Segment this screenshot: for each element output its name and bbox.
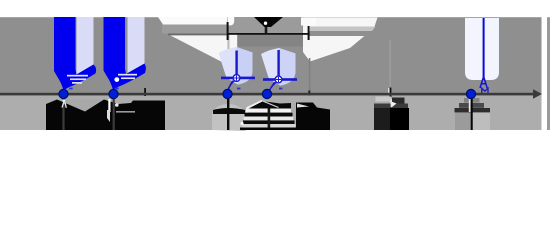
left sail right edge: [227, 35, 229, 63]
black marker trapezoid: [254, 17, 283, 27]
canvas upper gray field: [0, 17, 542, 94]
ground1 block dark: [374, 108, 390, 130]
dimension bracket line: [227, 33, 309, 35]
right panel sliver: [547, 17, 550, 130]
flag4 right tint: [279, 48, 296, 86]
sail stripe light: [310, 27, 376, 32]
probe5 pole: [483, 18, 485, 80]
left sail gray band: [162, 25, 228, 34]
node 5: [466, 89, 475, 98]
marker white dot: [264, 22, 267, 25]
probe5 white band: [465, 18, 499, 80]
ground1 bar dark small: [392, 98, 405, 104]
flag4 hline: [263, 78, 297, 81]
pin1 stripe2: [70, 78, 86, 80]
ground2 bar1: [464, 98, 480, 103]
flag4 circle: [275, 76, 282, 83]
marker stem: [265, 27, 268, 33]
stem node3: [227, 96, 229, 130]
faint pole x309: [309, 58, 311, 94]
white wedge right edge blobA: [107, 110, 110, 122]
dimension left tick: [227, 22, 229, 40]
flag3 pole: [235, 51, 237, 77]
pin2 lavender flag: [128, 17, 145, 74]
flag3 body: [219, 47, 253, 85]
flag4 cross: [276, 77, 281, 82]
probe5 arrowhead A: [480, 77, 487, 89]
node 1: [59, 89, 68, 98]
stack D black under roof left: [248, 102, 268, 114]
dome C base: [212, 104, 246, 131]
node 3: [223, 89, 232, 98]
stem node5: [471, 96, 473, 130]
figure body under node1: [62, 103, 66, 108]
left sail white band top: [158, 17, 227, 25]
flag3 hline: [221, 77, 255, 80]
node 2: [109, 89, 118, 98]
flag4 body: [261, 48, 296, 86]
ground1 white check: [390, 101, 397, 108]
bottom black strip: [240, 128, 330, 131]
pin1 stripe3: [72, 82, 82, 84]
flag3 cross: [234, 76, 239, 81]
left sail white triangle: [170, 35, 228, 63]
stack D seam: [268, 109, 271, 129]
figure under node1: [62, 99, 65, 102]
ground2 band left: [455, 108, 471, 130]
blue dash node4: [279, 88, 282, 90]
stack D white roofline right: [262, 101, 279, 108]
pin2 blue flag: [104, 17, 146, 90]
dimension right tick: [308, 26, 310, 40]
flag4 pole: [277, 50, 279, 77]
ground1 tick: [390, 88, 392, 98]
axis line: [0, 93, 535, 96]
blue dash node3: [237, 88, 240, 90]
pin2 stripe2: [121, 77, 135, 79]
ground2 bar3: [455, 108, 491, 112]
node 4: [262, 89, 271, 98]
blob B black: [296, 103, 330, 131]
stack D bar2 black: [245, 113, 293, 117]
stem node2: [113, 96, 115, 130]
ground1 tick white sliver: [388, 88, 390, 94]
blue dash node2: [115, 88, 118, 90]
stack D bar5 gray: [243, 124, 296, 128]
canvas lower gray field: [0, 94, 542, 130]
stack D white dot: [240, 122, 243, 125]
blob A black: [46, 100, 165, 131]
axis arrowhead: [533, 89, 542, 98]
tick x145: [144, 88, 146, 96]
sail stripe dark: [310, 31, 373, 36]
white bar near node2: [108, 99, 110, 112]
dimension underline gray: [168, 34, 227, 36]
flag3 tail: [227, 81, 236, 92]
pin1 stripe1: [67, 75, 88, 77]
blob A valley gray: [59, 100, 103, 112]
dark panel below bracket: [237, 35, 308, 47]
ground1 bar light: [376, 97, 392, 102]
blob B white streak: [297, 104, 309, 108]
tick x309 at axis: [308, 91, 310, 96]
blue dash node1: [69, 88, 72, 90]
gray hline in blob: [116, 111, 135, 113]
pin1 lavender flag: [77, 17, 94, 75]
stack D black under roof right: [262, 101, 291, 113]
white band left of dark panel: [229, 33, 237, 54]
dome C black band: [213, 108, 245, 114]
white tab right: [301, 18, 316, 26]
stem node1: [62, 96, 64, 130]
pin2 white D: [114, 77, 119, 82]
stack D bar4 black: [243, 120, 295, 124]
ground2 white sliver: [469, 97, 471, 112]
ground1 white sliver vert: [391, 99, 392, 107]
flag3 circle: [233, 75, 240, 82]
pin1 blue flag: [54, 17, 96, 91]
probe5 M letter: [482, 88, 488, 93]
right sail: [303, 18, 378, 62]
gray band above bracket: [228, 17, 302, 34]
ground2 bar2: [459, 103, 484, 108]
ground1 bar mid: [374, 104, 408, 109]
flag4 tail: [268, 82, 278, 92]
figure under node2: [115, 103, 119, 107]
ground2 band right: [473, 108, 490, 130]
flag3 right tint: [237, 47, 253, 85]
white tab left: [228, 17, 235, 26]
stack D white roofline left: [247, 101, 263, 109]
ground1 block black: [390, 108, 409, 130]
stack D bar3 white: [244, 117, 293, 121]
background white page: [0, 0, 550, 154]
pin2 stripe1: [118, 74, 137, 76]
faint pole x390: [389, 40, 391, 88]
stack D bar1 white: [246, 109, 291, 113]
